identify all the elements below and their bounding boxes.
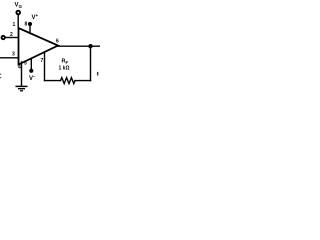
wire feedback vertical to output node xyxy=(90,46,92,80)
op-amp U1 xyxy=(19,28,59,65)
wire pin4 to ground xyxy=(21,62,23,86)
wire pin2 input xyxy=(5,37,18,39)
node output junction dot xyxy=(88,44,92,48)
terminal pin2 open circle xyxy=(2,36,5,39)
svg-text:4: 4 xyxy=(18,65,21,71)
svg-text:5: 5 xyxy=(24,61,27,67)
svg-text:3: 3 xyxy=(12,52,15,58)
wire pin7 down xyxy=(44,53,46,81)
wire pin6 output xyxy=(57,45,100,47)
partial character at right edge xyxy=(97,72,99,76)
left edge cropped marks xyxy=(0,74,1,75)
terminal VG open circle xyxy=(16,11,20,15)
svg-text:1 kΩ: 1 kΩ xyxy=(59,66,70,72)
svg-text:8: 8 xyxy=(25,22,28,28)
svg-text:2: 2 xyxy=(10,32,13,38)
svg-text:V–: V– xyxy=(29,74,36,82)
wire pin1 from VG terminal to op-amp top corner xyxy=(17,15,19,29)
wire pin8 V+ stub xyxy=(29,26,31,34)
wire pin3 input xyxy=(0,57,19,59)
svg-text:V+: V+ xyxy=(32,13,39,21)
node V- terminal dot xyxy=(29,69,33,73)
svg-text:1: 1 xyxy=(13,22,16,28)
resistor RF zigzag xyxy=(61,78,76,84)
svg-text:7: 7 xyxy=(41,58,44,64)
svg-text:VG: VG xyxy=(15,3,23,10)
svg-text:RF: RF xyxy=(62,59,69,65)
wire feedback bottom right segment xyxy=(75,80,91,82)
wire feedback bottom left segment xyxy=(45,80,61,82)
svg-text:6: 6 xyxy=(56,39,59,45)
wire pin5 V- stub xyxy=(30,59,32,71)
node V+ terminal dot xyxy=(28,22,32,26)
ground xyxy=(16,86,28,90)
